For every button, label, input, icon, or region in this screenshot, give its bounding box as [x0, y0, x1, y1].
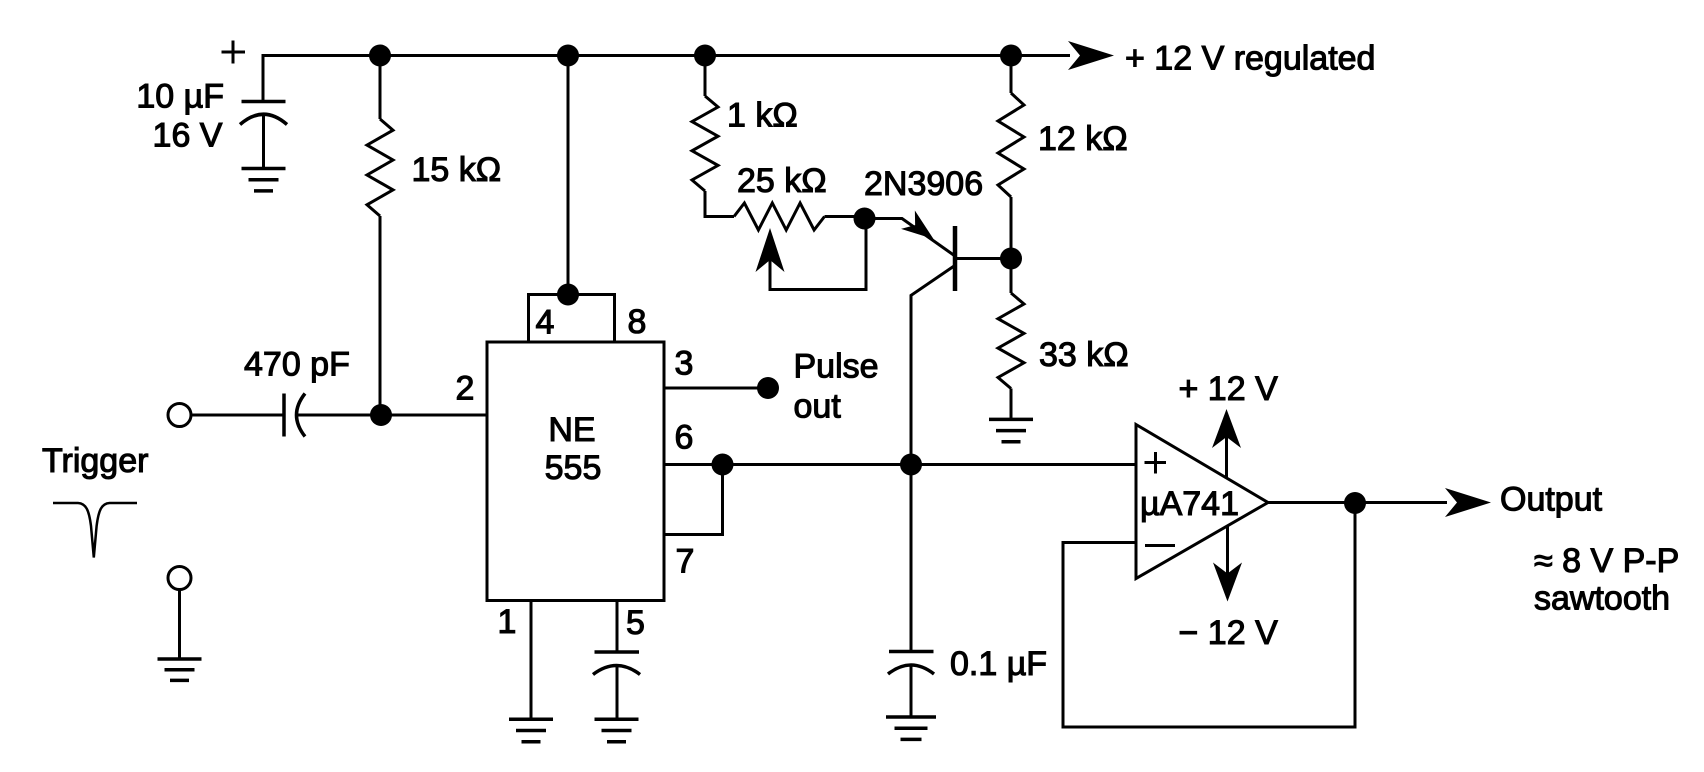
IC U1 NE555 body [487, 342, 664, 601]
wire: rail to R1 [379, 56, 382, 120]
supply arrow down head [1213, 563, 1242, 602]
wire: C4 to ground [910, 666, 913, 717]
svg-text:8: 8 [628, 303, 647, 341]
node: base / divider junction [1000, 248, 1022, 270]
wire: base to divider [955, 257, 1011, 260]
svg-text:out: out [794, 388, 842, 426]
svg-text:Output: Output [1500, 481, 1603, 519]
op-amp U2 uA741 triangle [1136, 425, 1268, 579]
op-amp minus input sign [1145, 544, 1175, 547]
wire: pin 1 to ground [530, 601, 533, 720]
wire: trigger to C2 [191, 414, 283, 417]
terminal: trigger input circle [168, 404, 191, 427]
wire: C3 to ground [616, 666, 619, 719]
wire: rail to R4 [1010, 56, 1013, 94]
wire: R2 to potentiometer [705, 191, 734, 217]
emitter arrowhead (PNP) [901, 211, 940, 249]
svg-text:555: 555 [545, 449, 602, 487]
wire: pot to emitter node [825, 215, 865, 218]
wire: pin 4 / pin 8 bracket [529, 295, 615, 343]
supply arrow up head [1212, 409, 1241, 448]
wire: terminal to ground [178, 590, 181, 660]
arrowhead: output [1445, 488, 1491, 517]
node: pins 4-8 tie [557, 284, 579, 306]
supply arrow up stem [1225, 435, 1228, 477]
node: rail junction at 12 kΩ [1000, 45, 1022, 67]
node: pins 6-7 tie [712, 454, 734, 476]
capacitor C2 470 pF left plate [282, 394, 286, 437]
capacitor C3 curved plate [593, 666, 640, 675]
ground below C1 [242, 169, 286, 191]
wire: wiper stem and loop to emitter node [770, 219, 866, 290]
svg-text:0.1 µF: 0.1 µF [950, 645, 1047, 683]
ground below pin 5 [595, 719, 639, 741]
capacitor C1 10 uF top plate [242, 100, 286, 104]
node: collector line at pin-6 wire [900, 454, 922, 476]
svg-text:10 µF: 10 µF [136, 78, 224, 116]
wire: rail to R2 [704, 56, 707, 97]
capacitor C3 top plate [595, 650, 640, 654]
supply arrow down stem [1226, 525, 1229, 576]
trigger pulse waveform [53, 503, 137, 558]
svg-text:12 kΩ: 12 kΩ [1038, 120, 1128, 158]
svg-text:Pulse: Pulse [794, 348, 879, 386]
wire: feedback from output to inverting input [1063, 503, 1355, 727]
potentiometer R3 25 kOhm body [734, 203, 825, 230]
resistor R1 15 kOhm [367, 119, 393, 216]
wire: op-amp output [1268, 501, 1447, 504]
wire: pin 5 to C3 [616, 601, 619, 653]
arrowhead: +12 V rail output [1068, 41, 1114, 70]
svg-text:15 kΩ: 15 kΩ [412, 151, 502, 189]
svg-text:25 kΩ: 25 kΩ [737, 162, 827, 200]
node: rail junction at 1 kΩ [694, 45, 716, 67]
wire: C1 to ground [262, 115, 265, 169]
ground below trigger terminal [158, 659, 202, 680]
wire: +12 V supply rail (top) [263, 56, 1070, 102]
op-amp plus input sign [1145, 452, 1167, 474]
capacitor C1 plus sign [222, 41, 246, 64]
svg-text:µA741: µA741 [1140, 485, 1239, 523]
ground below R5 [989, 419, 1033, 441]
resistor R2 1 kOhm [692, 96, 718, 191]
svg-text:sawtooth: sawtooth [1534, 580, 1670, 618]
wire: pin 6 to op-amp noninverting input [664, 463, 1136, 466]
capacitor C4 curved plate [888, 665, 934, 674]
wire: R4 to base node [1010, 197, 1013, 259]
ground below C4 [886, 717, 936, 739]
svg-text:+ 12 V regulated: + 12 V regulated [1125, 40, 1375, 78]
node: junction R1 / pin 2 [370, 404, 392, 426]
wire: pin 7 loop [664, 465, 723, 535]
potentiometer wiper arrow [756, 228, 785, 272]
svg-text:1: 1 [498, 603, 517, 641]
svg-text:NE: NE [548, 411, 595, 449]
svg-text:Trigger: Trigger [42, 442, 148, 480]
node: rail junction at NE555 supply [557, 45, 579, 67]
terminal: trigger ground circle [168, 567, 191, 590]
svg-text:1 kΩ: 1 kΩ [727, 97, 798, 135]
node: output junction [1344, 492, 1366, 514]
capacitor C1 10 uF curved plate [240, 114, 287, 124]
svg-text:+ 12 V: + 12 V [1179, 370, 1279, 408]
wire: supply drop to pins 4 and 8 [567, 56, 570, 295]
wire: R1 to trigger line [379, 216, 382, 415]
wire: emitter lead [865, 219, 956, 257]
transistor Q1 base bar [953, 226, 958, 291]
wire: R5 to ground [1010, 389, 1013, 420]
ground below pin 1 [509, 719, 553, 741]
capacitor C2 470 pF curved plate [297, 394, 306, 437]
node: emitter / wiper junction [854, 208, 876, 230]
wire: base node to R5 [1010, 259, 1013, 294]
resistor R5 33 kOhm [998, 293, 1024, 389]
node: rail junction at 15 kΩ [369, 45, 391, 67]
svg-text:2: 2 [456, 370, 475, 408]
svg-text:2N3906: 2N3906 [864, 165, 983, 203]
wire: pin 3 to pulse out [664, 387, 768, 390]
capacitor C4 0.1 uF top plate [889, 650, 934, 654]
svg-text:33 kΩ: 33 kΩ [1039, 336, 1129, 374]
terminal: pulse out node [757, 377, 779, 399]
wire: collector lead down to 0.1 uF [911, 265, 955, 651]
svg-text:6: 6 [675, 419, 694, 457]
svg-text:≈ 8 V P-P: ≈ 8 V P-P [1534, 542, 1679, 580]
svg-text:5: 5 [626, 604, 645, 642]
svg-text:− 12 V: − 12 V [1179, 614, 1279, 652]
wire: C2 to NE555 pin 2 [297, 414, 487, 417]
resistor R4 12 kOhm [998, 93, 1024, 197]
svg-text:4: 4 [536, 304, 555, 342]
svg-text:470 pF: 470 pF [244, 346, 350, 384]
svg-text:16 V: 16 V [153, 117, 223, 155]
svg-text:7: 7 [676, 543, 695, 581]
svg-text:3: 3 [675, 345, 694, 383]
